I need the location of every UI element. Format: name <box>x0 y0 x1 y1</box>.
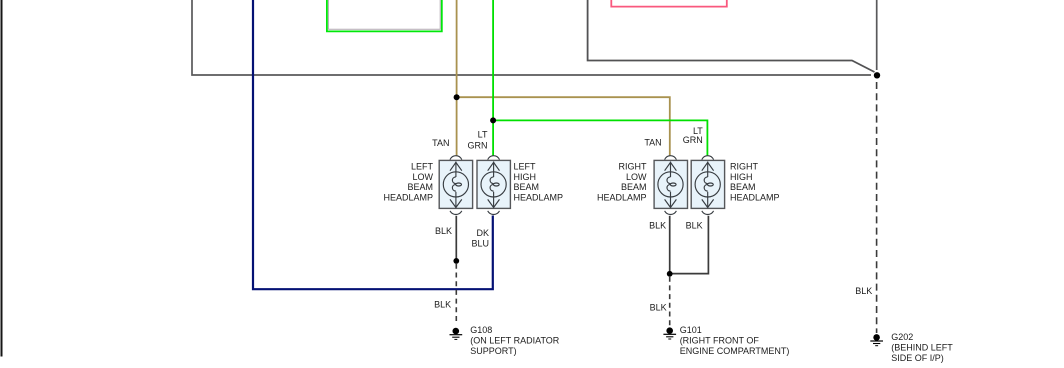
svg-text:BEAM: BEAM <box>730 182 756 192</box>
junction: tan splice dot <box>454 94 460 100</box>
wire: LT GRN main drop from top to left high beam headlamp <box>492 0 494 156</box>
svg-text:TAN: TAN <box>644 137 661 147</box>
svg-text:(ON LEFT RADIATOR: (ON LEFT RADIATOR <box>470 335 560 345</box>
lamp: RIGHT LOW BEAM HEADLAMP (U3) <box>654 156 687 215</box>
component box: dark gray (top right, cut off at top) with diagonal lead <box>588 0 875 72</box>
wire: BLK below right low beam headlamp <box>669 216 671 274</box>
svg-text:SIDE OF I/P): SIDE OF I/P) <box>891 353 944 363</box>
junction: dot above G202 drop <box>874 72 880 78</box>
ground G101 symbol <box>663 327 676 339</box>
svg-text:SUPPORT): SUPPORT) <box>470 346 516 356</box>
svg-text:BEAM: BEAM <box>407 182 433 192</box>
wire: dashed BLK down to G202 <box>876 82 878 333</box>
svg-text:LOW: LOW <box>626 172 647 182</box>
component box: pink highlight (cut off at top) <box>611 0 727 7</box>
svg-text:RIGHT: RIGHT <box>619 162 648 172</box>
wire: BLK below left low beam headlamp <box>455 216 457 261</box>
connector box (light gray) inside green highlight <box>328 0 440 29</box>
wire: DK BLU from top down, right along bottom, up to left high beam headlamp <box>253 0 493 289</box>
svg-text:BLK: BLK <box>435 226 452 236</box>
svg-text:TAN: TAN <box>432 138 449 148</box>
svg-text:DK: DK <box>476 228 489 238</box>
svg-text:HEADLAMP: HEADLAMP <box>383 193 433 203</box>
svg-text:HEADLAMP: HEADLAMP <box>597 193 647 203</box>
wire: left vertical black bus <box>1 0 3 357</box>
svg-text:G101: G101 <box>680 325 702 335</box>
svg-text:HEADLAMP: HEADLAMP <box>730 193 780 203</box>
svg-text:LEFT: LEFT <box>514 162 537 172</box>
svg-text:ENGINE COMPARTMENT): ENGINE COMPARTMENT) <box>680 346 790 356</box>
wire: BLK below right high beam headlamp, joining junction <box>671 216 708 274</box>
wire: gray right vertical from top to junction <box>876 0 878 70</box>
lamp: LEFT HIGH BEAM HEADLAMP (U2) <box>477 156 510 215</box>
wire: gray feed from top-left turning right toward G202 junction <box>192 0 871 75</box>
svg-text:(BEHIND LEFT: (BEHIND LEFT <box>891 342 953 352</box>
svg-text:BLK: BLK <box>649 220 666 230</box>
svg-text:LT: LT <box>478 130 488 140</box>
wire: dashed BLK down to G108 <box>455 264 457 325</box>
svg-text:GRN: GRN <box>468 141 488 151</box>
junction: splice dot on right BLK wires <box>667 271 673 277</box>
svg-text:RIGHT: RIGHT <box>730 162 759 172</box>
svg-text:LEFT: LEFT <box>411 162 434 172</box>
svg-text:LOW: LOW <box>412 172 433 182</box>
lamp: RIGHT HIGH BEAM HEADLAMP (U4) <box>691 156 724 215</box>
wire: TAN branch to right low beam headlamp <box>457 97 670 155</box>
junction: splice dot on left BLK wire <box>453 258 459 264</box>
svg-text:BLK: BLK <box>686 220 703 230</box>
svg-text:HEADLAMP: HEADLAMP <box>514 193 564 203</box>
svg-text:HIGH: HIGH <box>730 172 753 182</box>
wire: TAN main drop from top to left low beam headlamp <box>456 0 458 156</box>
svg-text:GRN: GRN <box>683 135 703 145</box>
svg-text:G108: G108 <box>470 325 492 335</box>
ground G202 symbol <box>870 334 883 346</box>
svg-text:HIGH: HIGH <box>514 172 537 182</box>
svg-text:G202: G202 <box>891 332 913 342</box>
component box: green highlight (cut off at top) <box>327 0 442 31</box>
svg-text:BEAM: BEAM <box>621 182 647 192</box>
svg-text:(RIGHT FRONT OF: (RIGHT FRONT OF <box>680 335 760 345</box>
svg-text:BLU: BLU <box>471 238 489 248</box>
lamp: LEFT LOW BEAM HEADLAMP (U1) <box>439 156 472 215</box>
wire: LT GRN branch to right high beam headlamp <box>493 120 707 155</box>
svg-text:BLK: BLK <box>855 286 872 296</box>
wire: dashed BLK down to G101 <box>669 277 671 326</box>
svg-text:BEAM: BEAM <box>514 182 540 192</box>
svg-text:BLK: BLK <box>650 303 667 313</box>
junction: light green splice dot <box>490 117 496 123</box>
svg-text:BLK: BLK <box>434 299 451 309</box>
ground G108 symbol <box>450 328 463 340</box>
